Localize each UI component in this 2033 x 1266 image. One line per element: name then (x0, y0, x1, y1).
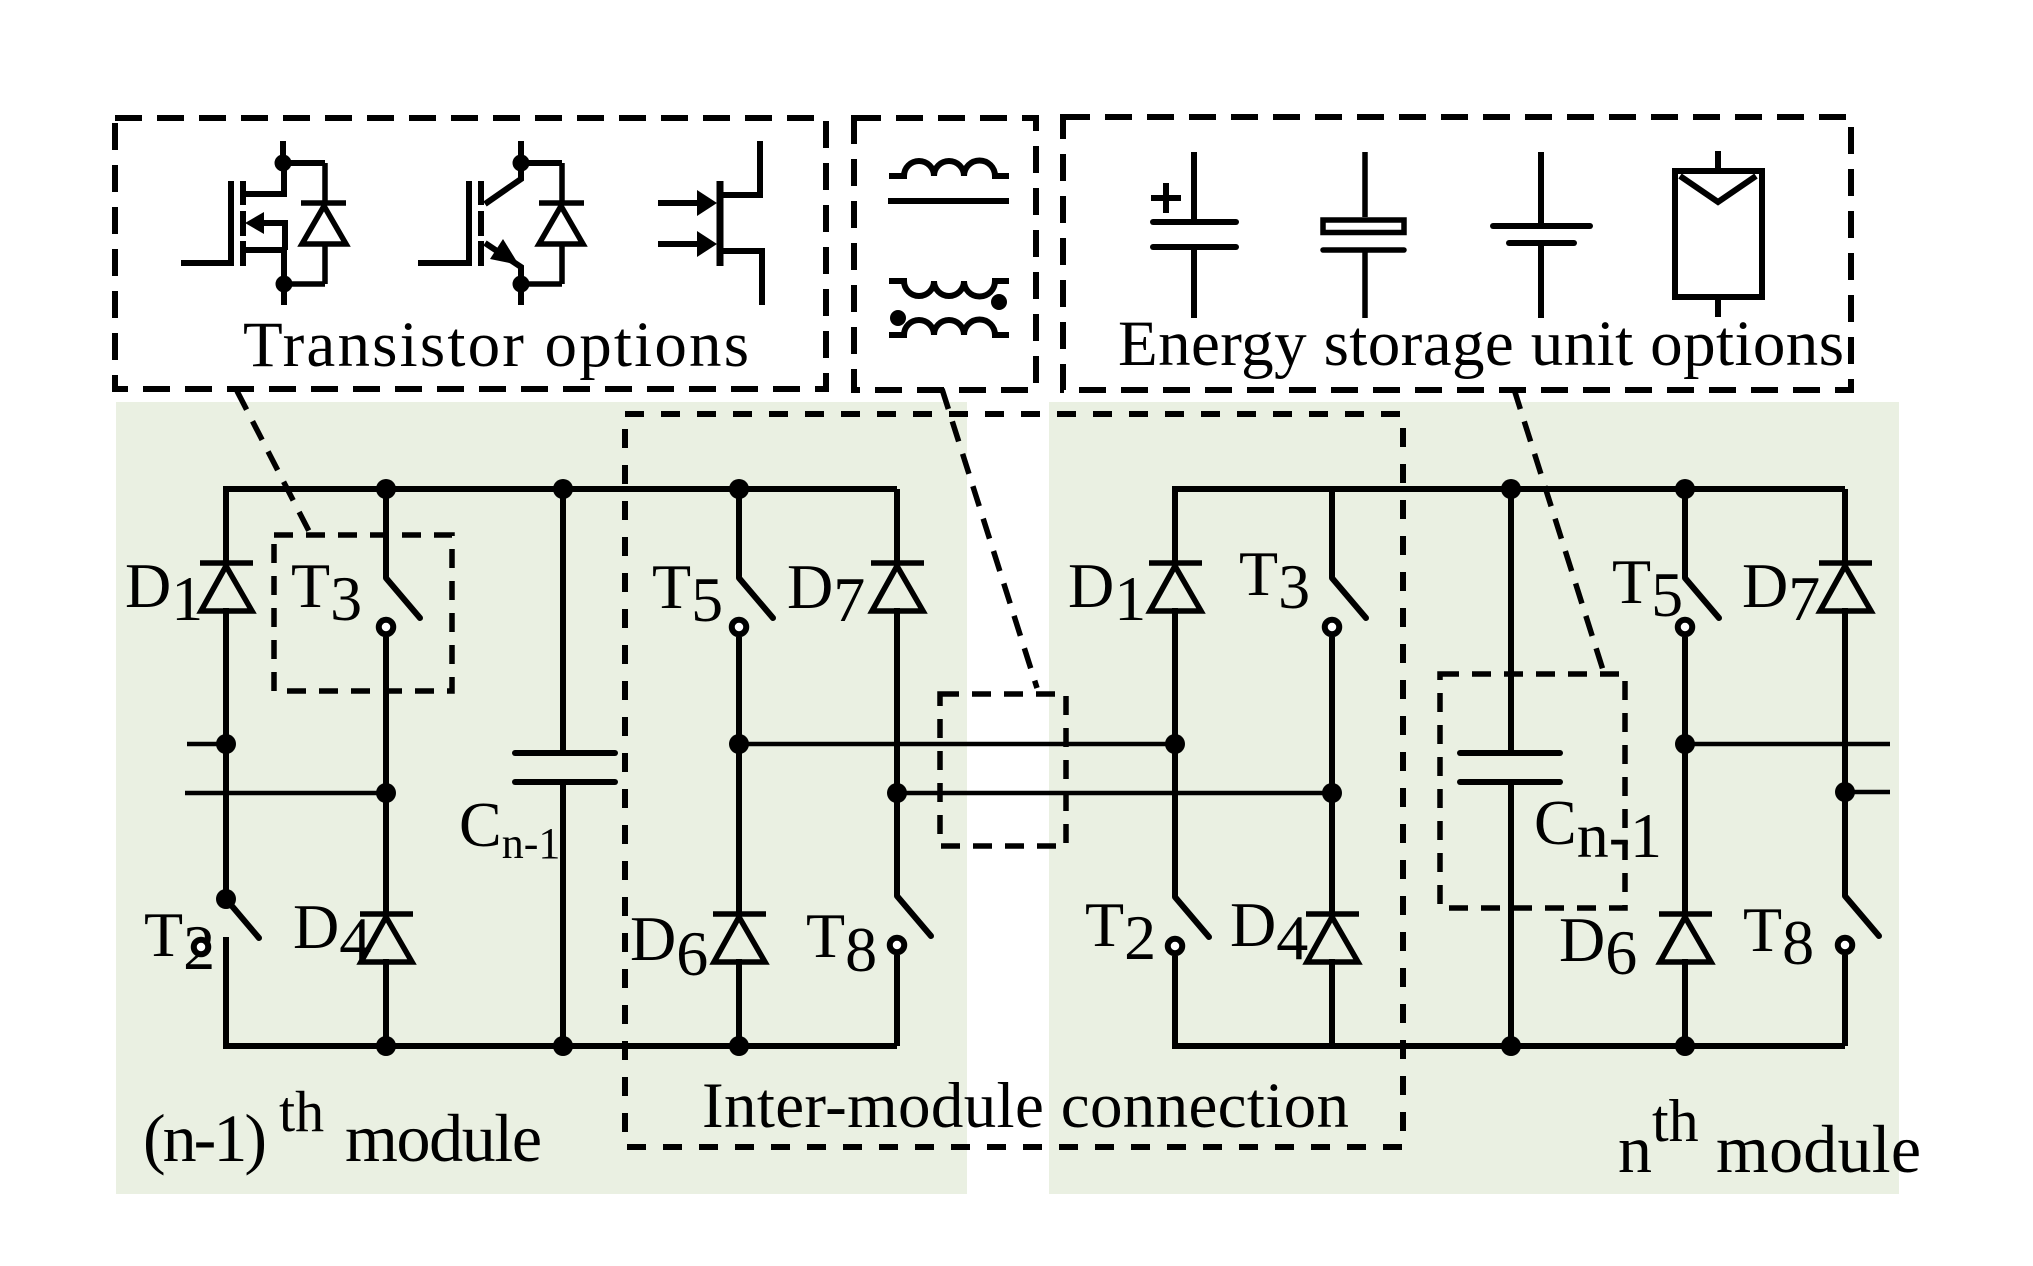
junction dot cap top rail right (1501, 479, 1521, 499)
junction dot T5-D6 mid (729, 734, 749, 754)
transformer polarity dot left (890, 310, 906, 326)
leader to inter-module box (942, 389, 1037, 688)
switch T2 blade (226, 899, 259, 938)
switch T2 right (1168, 897, 1209, 953)
wire D4 to bottom rail (383, 959, 389, 1046)
junction dot D1 mid right (1165, 734, 1185, 754)
module background (n-1)th (116, 402, 967, 1194)
MOSFET body diode (284, 163, 346, 284)
wire branch T5 upper (736, 489, 742, 578)
wire branch D7 upper right (1842, 489, 1848, 566)
wire branch D1 upper right (1172, 489, 1178, 566)
polarized capacitor option (1151, 152, 1236, 318)
svg-text:Inter-module connection: Inter-module connection (702, 1070, 1349, 1142)
dual-gate arrow lower (697, 231, 717, 257)
wire inter-module line lower (897, 791, 1332, 796)
junction dot T3-D4 mid right (1322, 783, 1342, 803)
junction dot T5 top rail right (1675, 479, 1695, 499)
dual-gate arrow upper (697, 190, 717, 216)
diode D1 (200, 563, 253, 611)
wire branch T3 upper right (1329, 489, 1335, 578)
junction dot T5 top rail (729, 479, 749, 499)
switch T5 right (1678, 578, 1719, 634)
wire branch T5 upper right (1682, 489, 1688, 578)
junction dot T3-D4 mid (376, 783, 396, 803)
svg-text:th: th (1652, 1088, 1699, 1154)
diode D4 (360, 914, 413, 962)
inductor option (888, 161, 1009, 202)
transistor Q-MOSFET option (181, 141, 325, 305)
svg-text:module: module (345, 1100, 542, 1176)
svg-text:Transistor options: Transistor options (243, 309, 749, 381)
wire D7 to T8 (894, 608, 900, 896)
diode D1 right (1149, 563, 1202, 611)
supercapacitor option (1323, 152, 1404, 318)
transformer option (889, 281, 1009, 335)
transistor dual-gate option (717, 181, 724, 266)
dashed box: Inter-module connection (625, 414, 1403, 1147)
switch T5 (732, 578, 773, 634)
leader to capacitor box (1514, 389, 1603, 670)
wire top rail left module (226, 489, 897, 492)
wire T3 to D4 right (1329, 637, 1335, 917)
wire bottom rail left module (226, 1043, 897, 1046)
wire left port line lower (185, 791, 386, 796)
wire bottom rail right module (1175, 1043, 1845, 1046)
switch T8 (890, 896, 931, 952)
junction dot D7-T8 mid right (1835, 782, 1855, 802)
junction dot D7-T8 mid (887, 783, 907, 803)
dashed box: magnetics options (854, 118, 1036, 390)
capacitor option (1493, 152, 1590, 318)
wire right port line upper (1685, 742, 1890, 747)
MOSFET bottom junction dot (276, 276, 293, 293)
junction dot cap top rail (553, 479, 573, 499)
wire D7 to T8 right (1842, 608, 1848, 896)
wire branch D1 lower to T2 (223, 608, 229, 899)
capacitor Cn-1 right module (1460, 753, 1560, 782)
wire T2 to bottom rail (223, 937, 229, 1046)
junction dot D1 mid (216, 734, 236, 754)
wire T8 to bottom rail right (1842, 955, 1848, 1046)
switch T8 right (1838, 896, 1879, 952)
switch T3 (379, 578, 420, 634)
dashed box: Transistor options (115, 118, 826, 389)
wire top rail right module (1175, 489, 1845, 492)
wire branch D7 upper (894, 489, 900, 566)
junction dot D4 bottom rail (376, 1036, 396, 1056)
junction dot T5-D6 mid right (1675, 734, 1695, 754)
diode D7 right (1819, 563, 1872, 611)
junction dot cap bottom rail (553, 1036, 573, 1056)
wire T5 to D6 (736, 637, 742, 917)
transistor IGBT option (418, 141, 562, 305)
wire capacitor branch upper (560, 489, 566, 754)
switch T2 terminal circle (194, 940, 209, 955)
wire left stub upper (187, 742, 226, 747)
capacitor Cn-1 left module (515, 753, 615, 782)
dashed box: Energy storage unit options (1063, 117, 1851, 390)
svg-text:Energy storage unit options: Energy storage unit options (1118, 308, 1844, 380)
wire T8 to bottom rail (894, 955, 900, 1046)
IGBT emitter arrow (490, 239, 519, 265)
svg-text:n: n (1618, 1111, 1652, 1187)
leader to T3 box (237, 391, 313, 539)
diode D4 right (1306, 914, 1359, 962)
MOSFET body arrow (245, 212, 264, 234)
wire D6 to bottom rail right (1682, 959, 1688, 1046)
wire T5 to D6 right (1682, 637, 1688, 917)
wire branch D1 lower to T2 right (1172, 608, 1178, 897)
wire T2 to bottom rail right (1172, 956, 1178, 1046)
wire branch T3 upper (383, 489, 389, 578)
wire capacitor branch lower (560, 782, 566, 1046)
wire D6 to bottom rail (736, 959, 742, 1046)
small dashed box: inter-module wires (940, 694, 1066, 846)
svg-text:(n-1): (n-1) (143, 1100, 267, 1176)
wire T3 to D4 (383, 637, 389, 917)
junction dot D6 bottom rail (729, 1036, 749, 1056)
junction dot D6 bottom rail right (1675, 1036, 1695, 1056)
wire branch D1 upper (223, 489, 229, 566)
battery option (1675, 151, 1762, 317)
svg-text:module: module (1716, 1111, 1921, 1187)
diode D6 (713, 914, 766, 962)
wire D4 to bottom rail right (1329, 959, 1335, 1046)
switch T3 right (1325, 578, 1366, 634)
wire capacitor branch lower right (1508, 782, 1514, 1046)
wire capacitor branch upper right (1508, 489, 1514, 753)
MOSFET top junction dot (275, 155, 292, 172)
wire inter-module line upper (739, 742, 1175, 747)
svg-text:th: th (279, 1079, 324, 1144)
IGBT top junction dot (513, 155, 530, 172)
junction dot T2 top (216, 889, 236, 909)
wire right stub lower (1845, 790, 1890, 795)
module background nth (1049, 402, 1899, 1194)
IGBT bottom junction dot (513, 276, 530, 293)
junction dot T3 top rail (376, 479, 396, 499)
diode D6 right (1659, 914, 1712, 962)
diode D7 (871, 563, 924, 611)
IGBT anti-parallel diode (521, 163, 584, 284)
dashed box around Cn-1 (1440, 674, 1625, 908)
junction dot cap bottom rail right (1501, 1036, 1521, 1056)
dashed box around T3 (274, 535, 452, 691)
transformer polarity dot right (991, 294, 1007, 310)
